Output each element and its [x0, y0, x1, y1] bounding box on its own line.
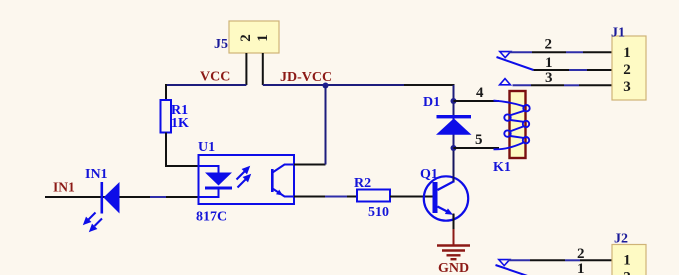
- relay contact triangle (J2 top): [499, 260, 510, 266]
- wire rail to D1: [404, 84, 455, 86]
- relay armature J1: [497, 57, 534, 70]
- connector J1: [612, 36, 646, 100]
- svg-text:510: 510: [368, 205, 389, 220]
- svg-text:J1: J1: [611, 26, 625, 41]
- svg-text:IN1: IN1: [85, 167, 108, 182]
- wire J2 pin1 (label 2): [508, 259, 530, 261]
- U1 LED cathode bar: [205, 187, 232, 190]
- wire J1 pin1 (label 2): [509, 51, 532, 53]
- resistor R1: [161, 100, 172, 133]
- diode D1: [436, 101, 472, 148]
- wire R2 to Q1 base: [390, 196, 433, 198]
- wire IN1 to U1: [166, 196, 199, 198]
- svg-text:1: 1: [255, 34, 271, 42]
- svg-text:J5: J5: [214, 37, 228, 52]
- wire R1 top: [165, 84, 167, 100]
- svg-text:VCC: VCC: [200, 70, 230, 85]
- svg-text:1K: 1K: [171, 116, 189, 131]
- relay contact NC triangle (J1 top): [500, 52, 511, 58]
- wire VCC rail: [165, 84, 246, 86]
- U1 phototransistor emitter: [273, 189, 295, 197]
- connector J2: [612, 245, 646, 275]
- U1 LED triangle: [205, 173, 232, 186]
- svg-text:JD-VCC: JD-VCC: [280, 70, 332, 85]
- svg-text:2: 2: [623, 62, 631, 78]
- wire JD-VCC rail: [263, 84, 404, 86]
- svg-text:1: 1: [623, 45, 631, 61]
- LED arrows: [85, 213, 103, 231]
- wire J5 pin2 down: [245, 53, 247, 85]
- svg-text:5: 5: [475, 132, 483, 148]
- U1 phototransistor collector: [273, 165, 295, 173]
- svg-text:1: 1: [623, 252, 631, 268]
- U1 emission arrows: [237, 168, 250, 188]
- svg-text:817C: 817C: [196, 210, 227, 225]
- resistor R2: [357, 190, 390, 202]
- svg-text:GND: GND: [438, 261, 469, 275]
- svg-text:IN1: IN1: [53, 180, 75, 195]
- svg-text:D1: D1: [423, 95, 440, 110]
- relay armature J2: [496, 265, 534, 275]
- U1 LED anode pin: [199, 166, 219, 173]
- wire Q1 collector up: [453, 148, 455, 182]
- wire U1 collector up to JD-VCC: [294, 164, 326, 166]
- wire J5 pin1 down: [262, 53, 264, 85]
- LED IN1: [85, 182, 120, 231]
- svg-text:1: 1: [577, 261, 585, 275]
- svg-text:3: 3: [623, 79, 631, 95]
- transistor Q1: [424, 176, 468, 220]
- wire J1 pin3 (label 3): [513, 84, 532, 86]
- wire pin5 to relay: [454, 147, 500, 149]
- svg-text:3: 3: [545, 70, 553, 86]
- wire IN1 blue patch: [150, 196, 166, 198]
- wire J1 pin2 (label 1): [534, 69, 570, 71]
- wire R1 bottom to U1: [166, 133, 199, 167]
- wire U1 emitter to R2: [294, 196, 325, 198]
- svg-text:R2: R2: [354, 176, 371, 191]
- svg-text:J2: J2: [614, 232, 628, 247]
- svg-text:2: 2: [238, 34, 254, 42]
- wire rail down to D1: [453, 85, 455, 101]
- relay contact NO triangle (J1 bottom): [500, 79, 511, 85]
- svg-text:2: 2: [545, 37, 553, 53]
- svg-text:2: 2: [577, 246, 585, 262]
- svg-text:2: 2: [623, 269, 631, 275]
- svg-text:4: 4: [476, 85, 484, 101]
- svg-text:K1: K1: [493, 160, 511, 175]
- U1 phototransistor base bar: [271, 169, 274, 192]
- opto-coupler U1: [199, 155, 295, 204]
- wire IN1 left: [45, 196, 150, 198]
- svg-text:U1: U1: [198, 140, 215, 155]
- svg-text:Q1: Q1: [420, 167, 438, 182]
- wire Q1 emitter down: [453, 214, 455, 230]
- node junction D1 bottom: [451, 145, 457, 151]
- wire pin4 to relay: [454, 100, 500, 102]
- connector J5: [229, 21, 279, 53]
- relay coil K1: [494, 91, 530, 158]
- U1 LED cathode pin: [199, 190, 219, 198]
- node junction JD-VCC: [323, 83, 329, 89]
- node junction D1 top: [451, 98, 457, 104]
- ground: [437, 229, 470, 259]
- svg-text:1: 1: [545, 55, 553, 71]
